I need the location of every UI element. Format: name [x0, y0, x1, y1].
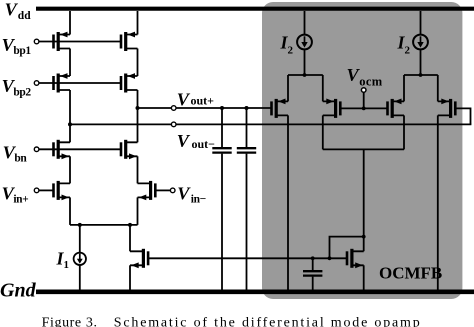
wire Vbp2 gate bus	[39, 82, 121, 84]
wire M_in+ source down to tail	[69, 197, 71, 225]
svg-text:V: V	[177, 131, 191, 151]
Gnd rail	[36, 289, 474, 294]
svg-text:bn: bn	[14, 153, 27, 165]
wire M_in- source down to tail	[137, 197, 139, 225]
transistor M3 (OCMFB PMOS, gate Vocm)	[388, 99, 405, 118]
node tail-I1 junction	[78, 223, 82, 227]
wire M_bp2R drain to M_bnR drain (right cascode node)	[137, 90, 139, 142]
wire tail to M4 source	[437, 75, 439, 101]
wire Vbp1 gate bus	[39, 41, 121, 43]
node diode loop junction on gate bus	[328, 256, 332, 260]
transistor M4 (OCMFB PMOS mirrored, gate Vout-)	[438, 99, 456, 118]
svg-text:V: V	[177, 90, 191, 110]
transistor M_bnL (NMOS cascode, Vbn, left column)	[54, 140, 71, 159]
label Vin-	[177, 184, 205, 206]
node Vout- open terminal	[171, 122, 176, 127]
wire M1 drain to Gnd	[287, 115, 289, 291]
label I1	[56, 249, 70, 272]
svg-text:V: V	[177, 184, 191, 204]
label Vbp2	[2, 76, 32, 98]
wire inner drain bus	[323, 148, 404, 150]
wire tail bus	[70, 224, 138, 226]
svg-text:2: 2	[405, 45, 411, 57]
wire M_bp1L drain to M_bp2L source	[69, 49, 71, 77]
label Vbp1	[2, 35, 32, 57]
caption Figure 3	[42, 316, 422, 327]
wire M_bnR source to M_in- drain	[137, 156, 139, 183]
node diode loop junction on drain	[362, 235, 366, 239]
node Vout- junction	[68, 122, 72, 126]
svg-text:bp1: bp1	[13, 45, 31, 57]
svg-text:ocm: ocm	[359, 74, 382, 88]
label Vbn	[3, 143, 28, 165]
svg-text:in+: in+	[13, 194, 28, 206]
wire Vin+ gate lead	[39, 189, 54, 191]
svg-text:Schematic of the differential: Schematic of the differential mode opamp	[114, 316, 422, 327]
wire M2 drain down	[322, 115, 324, 149]
wire M_bp2L drain to M_bnL drain (left cascode node)	[69, 90, 71, 142]
svg-text:1: 1	[64, 259, 70, 271]
capacitor C_cmfb lead	[312, 258, 314, 270]
transistor M_in- (NMOS input, Vin-, mirrored on right column)	[138, 181, 156, 200]
node tail-mirror junction	[128, 223, 132, 227]
node tail right pair junction	[419, 73, 423, 77]
wire tail bus right pair	[404, 74, 438, 76]
svg-text:out−: out−	[192, 137, 216, 151]
wire Vout- line	[70, 123, 471, 125]
wire Vdd to I2 right	[420, 11, 422, 35]
wire M4 gate loop to Vout-	[455, 108, 470, 124]
capacitor CL2 top lead	[246, 108, 248, 147]
svg-text:V: V	[5, 0, 19, 19]
node Vocm junction	[362, 107, 366, 111]
node Vin+ terminal	[34, 188, 39, 193]
wire OCMFB gate bus (mirror gate to output device gate)	[148, 257, 346, 259]
transistor M_bp1L (PMOS, Vbp1, left column)	[54, 32, 71, 51]
svg-text:Gnd: Gnd	[0, 280, 37, 302]
wire Vdd to M_bp1R source	[137, 11, 139, 35]
label Vout+	[177, 90, 214, 110]
svg-text:2: 2	[288, 45, 294, 57]
svg-text:OCMFB: OCMFB	[379, 264, 442, 283]
wire tail to M3 source	[403, 75, 405, 101]
capacitor C_cmfb	[303, 271, 322, 291]
svg-text:out+: out+	[191, 94, 215, 108]
wire tail bus left pair	[288, 74, 323, 76]
node tail left pair junction	[303, 73, 307, 77]
transistor M_bp1R (PMOS, Vbp1, right column)	[121, 32, 138, 51]
transistor M_bp2R (PMOS, Vbp2, right column)	[121, 73, 138, 92]
current source I1	[74, 225, 86, 291]
node CL1-Vout+ junction	[220, 106, 224, 110]
wire M_bnL source to M_in+ drain	[69, 156, 71, 183]
label Vin+	[2, 184, 29, 206]
node CL2-Vout+ junction	[245, 106, 249, 110]
svg-text:dd: dd	[18, 10, 31, 22]
Vdd rail	[36, 7, 474, 11]
node Vin- terminal	[170, 188, 175, 193]
transistor M_in+ (NMOS input, Vin+, left column)	[54, 181, 71, 200]
wire Vbn gate bus	[39, 148, 121, 150]
node Vbn terminal	[34, 147, 39, 152]
wire center tap down to output device drain	[363, 149, 365, 251]
label Vout-	[177, 131, 215, 151]
capacitor CL1 top lead	[221, 108, 223, 147]
node Vout+ junction	[136, 106, 140, 110]
current source I2 right	[413, 35, 428, 75]
wire tail to M2 source	[322, 75, 324, 101]
wire M4 drain to Gnd	[437, 115, 439, 291]
transistor M2 (OCMFB PMOS mirrored, gate Vocm)	[323, 99, 341, 118]
svg-text:bp2: bp2	[13, 86, 31, 98]
wire tail to mirror NMOS drain	[129, 225, 131, 251]
transistor M_out (OCMFB output NMOS, diode-connected)	[347, 249, 364, 268]
svg-text:in−: in−	[191, 194, 206, 206]
node Vbp1 terminal	[34, 39, 39, 44]
wire Vdd to I2 left	[304, 11, 306, 35]
capacitor CL1	[212, 148, 231, 291]
wire Vocm gate bus (M2 to M3)	[340, 107, 387, 109]
wire M_bp1R drain to M_bp2R source	[137, 49, 139, 77]
wire mirror source to Gnd	[129, 265, 131, 291]
transistor M_mir (NMOS tail mirror, mirrored, gate to OCMFB)	[130, 249, 148, 268]
current source I2 left	[297, 35, 312, 75]
wire M3 drain down	[403, 115, 405, 149]
node C_cmfb junction	[311, 256, 315, 260]
transistor M_bp2L (PMOS, Vbp2, left column)	[54, 73, 71, 92]
wire diode gate-drain loop	[330, 237, 364, 259]
wire tail to M1 source	[287, 75, 289, 101]
svg-text:Figure 3.: Figure 3.	[42, 316, 98, 327]
wire Vin- gate lead	[155, 189, 170, 191]
node Vocm terminal	[361, 88, 366, 93]
wire Vdd to M_bp1L source	[69, 11, 71, 35]
node Vbp2 terminal	[34, 81, 39, 86]
transistor M_bnR (NMOS cascode, Vbn, right column)	[121, 140, 138, 159]
node Vout+ open terminal	[171, 106, 176, 111]
label Vdd	[5, 0, 32, 22]
OCMFB shaded region	[262, 2, 462, 299]
transistor M1 (OCMFB PMOS, gate Vout+)	[272, 99, 289, 118]
label I2 right	[397, 33, 411, 57]
wire M_out source to Gnd	[363, 265, 365, 291]
capacitor CL2	[237, 148, 256, 291]
wire Vout+ line	[138, 107, 272, 109]
wire Vocm lead	[363, 92, 365, 108]
label Vocm	[347, 65, 383, 88]
label I2 left	[280, 33, 294, 57]
